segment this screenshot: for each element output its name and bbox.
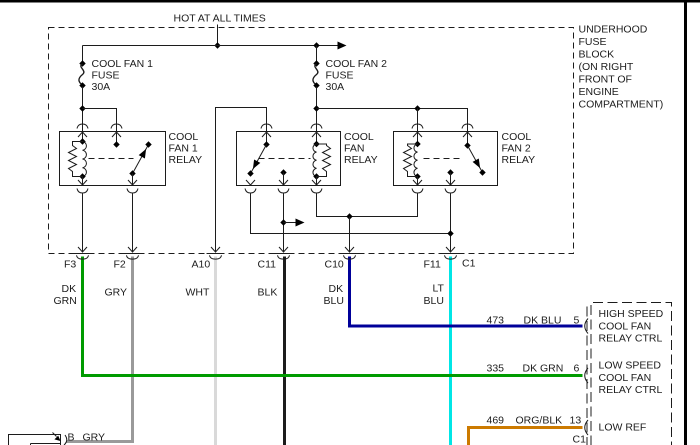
svg-text:A10: A10 (192, 259, 211, 271)
svg-text:RELAY: RELAY (502, 154, 536, 166)
PCM dashed box (591, 303, 672, 445)
svg-text:FAN 2: FAN 2 (502, 143, 531, 155)
relay K2 box: COOL FAN RELAY (237, 132, 341, 186)
svg-text:COMPARTMENT): COMPARTMENT) (579, 99, 664, 111)
label: underhood fuse block (579, 24, 664, 111)
relay3 coil top connector arc (412, 124, 423, 129)
relay2 coil bottom connector arc (311, 189, 322, 194)
svg-text:DK GRN: DK GRN (523, 363, 564, 375)
relay3 switch stub (467, 132, 469, 146)
svg-text:DK BLU: DK BLU (524, 315, 562, 327)
PCM pin5 terminal arc (585, 319, 588, 334)
svg-text:C1: C1 (462, 258, 476, 270)
wire GRY F2 to fan motor (67, 257, 133, 442)
relay3 resistor (parallel with coil) (404, 144, 418, 177)
pin F3 connector cup (74, 253, 92, 255)
svg-text:FUSE: FUSE (92, 70, 120, 82)
relay2 top pin A stub to contact (266, 132, 268, 145)
pin F3 exit chevron (78, 247, 87, 252)
svg-text:COOL FAN: COOL FAN (599, 372, 652, 384)
wire: top power bus (83, 45, 338, 47)
svg-text:GRY: GRY (83, 432, 106, 444)
svg-text:F11: F11 (424, 259, 441, 271)
wire C10 drop (349, 217, 351, 253)
svg-text:COOL: COOL (169, 131, 199, 143)
relay1 pin2 stub with contact dot (116, 132, 118, 145)
relay2 switch arm (251, 145, 267, 174)
svg-text:LOW SPEED: LOW SPEED (599, 360, 662, 372)
relay3 coil bottom chevron (413, 180, 422, 185)
wire DK BLU C10 to PCM pin5 (350, 257, 583, 327)
wire WHT A10 (214, 257, 217, 445)
wire relay3 coil pin up (417, 109, 419, 132)
svg-text:GRY: GRY (105, 287, 128, 299)
svg-text:F2: F2 (114, 259, 126, 271)
fuse F1 COOL FAN 1 FUSE 30A (79, 46, 153, 132)
arrow continuation of bus (338, 42, 347, 50)
relay1 pin 30 bottom connector arc (127, 189, 138, 194)
svg-text:BLOCK: BLOCK (579, 49, 615, 61)
wire LT BLU F11 (449, 257, 452, 445)
fan motor connector arc (64, 435, 67, 445)
relay1 pin 85 bottom chevron (78, 180, 87, 185)
wire relay2 pin30 down and over to F11 (251, 194, 451, 234)
svg-text:(ON RIGHT: (ON RIGHT (579, 61, 634, 73)
relay2 coil bottom chevron (312, 180, 321, 185)
wire relay1 pin85 down to F3 (82, 194, 84, 253)
junction on C11 wire with continuation arrow (280, 219, 286, 225)
pin C10 connector cup (341, 253, 359, 255)
wire ORG/BLK to PCM pin13 (469, 428, 583, 445)
svg-text:COOL FAN: COOL FAN (599, 320, 652, 332)
relay2 bottom mid pin connector arc (278, 189, 289, 194)
svg-text:WHT: WHT (186, 287, 210, 299)
right border frame (684, 0, 687, 445)
relay3 switch arm (468, 146, 483, 173)
relay1 switch arm (133, 145, 149, 174)
junction fuse2 branch / relay3 coil (414, 105, 420, 111)
relay2 bottom mid pin chevron (279, 180, 288, 185)
svg-text:C1: C1 (573, 434, 587, 445)
wire relay1 pin30 down to F2 (132, 194, 134, 253)
relay2 resistor (parallel with coil) (317, 144, 331, 177)
svg-text:COOL FAN 2: COOL FAN 2 (326, 58, 388, 70)
wire fuse1 branch to relay1 pin2 (83, 109, 117, 132)
pin A10 connector cup (207, 253, 225, 255)
relay2 top pin A chevron (262, 132, 271, 137)
relay1 pin 86 chevron (78, 132, 87, 137)
svg-text:LT: LT (433, 283, 445, 295)
relay2 coil top connector arc (311, 124, 322, 129)
svg-text:UNDERHOOD: UNDERHOOD (579, 24, 648, 36)
fan motor connector arrow (53, 433, 57, 437)
relay1 pin2 top connector arc (111, 124, 122, 129)
wire relay3 mid pin down to F11 (450, 194, 452, 253)
svg-text:335: 335 (487, 363, 505, 375)
relay3 switch top chevron (463, 132, 472, 137)
pin F11 exit chevron (446, 247, 455, 252)
pin C11 connector cup (275, 253, 293, 255)
relay1 pin 30 bottom chevron (128, 180, 137, 185)
relay3 bottom mid pin connector arc (445, 189, 456, 194)
svg-text:469: 469 (487, 415, 505, 427)
wire relay2 coil pin over to relay3 coil pin (317, 194, 418, 217)
svg-text:COOL: COOL (502, 131, 532, 143)
svg-text:FUSE: FUSE (579, 36, 607, 48)
svg-text:473: 473 (487, 315, 505, 327)
pin A10 exit chevron (211, 247, 220, 252)
svg-text:DK: DK (62, 283, 77, 295)
wire DK GRN F3 to PCM pin6 (83, 257, 583, 376)
pin F11 connector cup (442, 253, 460, 255)
junction C10 tee (346, 213, 352, 219)
svg-text:ORG/BLK: ORG/BLK (516, 415, 563, 427)
wire A10 riser to relay2 pin (216, 108, 267, 253)
svg-text:COOL: COOL (344, 131, 374, 143)
relay2 bottom pin 30 connector arc (245, 189, 256, 194)
PCM pin6 terminal arc (585, 368, 588, 383)
relay3 coil-switch dashed link (424, 158, 460, 160)
relay1 pin2 chevron (112, 132, 121, 137)
svg-text:BLK: BLK (258, 287, 278, 299)
svg-text:RELAY CTRL: RELAY CTRL (599, 333, 663, 345)
wire relay2 mid pin down to C11 (283, 194, 285, 253)
relay1 pin 86 top connector arc (77, 124, 88, 129)
pin F2 connector cup (124, 253, 142, 255)
relay2 coil top chevron (312, 132, 321, 137)
wire from HOT label down to bus (217, 25, 219, 46)
relay3 coil top chevron (413, 132, 422, 137)
relay K3 box: COOL FAN 2 RELAY (394, 132, 498, 186)
svg-text:RELAY: RELAY (169, 154, 203, 166)
fan motor box bottom left (9, 435, 61, 445)
pin C10 exit chevron (345, 247, 354, 252)
svg-text:13: 13 (570, 415, 582, 427)
svg-text:RELAY CTRL: RELAY CTRL (599, 384, 663, 396)
relay1 pin 30 stub (132, 174, 134, 186)
svg-text:COOL FAN 1: COOL FAN 1 (92, 58, 154, 70)
svg-text:ENGINE: ENGINE (579, 86, 619, 98)
relay3 switch top connector arc (462, 124, 473, 129)
wire fuse2 branch to relay3 (317, 109, 468, 132)
pin C11 exit chevron (279, 247, 288, 252)
svg-text:FAN: FAN (344, 143, 364, 155)
pin F2 exit chevron (128, 247, 137, 252)
svg-text:C10: C10 (325, 259, 344, 271)
svg-text:GRN: GRN (54, 295, 77, 307)
svg-text:C11: C11 (258, 259, 277, 271)
PCM connector face dashed line (586, 307, 588, 445)
relay3 bottom mid pin contact dot and stub (447, 169, 453, 175)
svg-text:FAN 1: FAN 1 (169, 143, 198, 155)
svg-text:BLU: BLU (424, 295, 444, 307)
relay1 coil-switch dashed link (89, 158, 134, 160)
relay3 coil (417, 132, 419, 145)
svg-text:HOT AT ALL TIMES: HOT AT ALL TIMES (174, 13, 266, 25)
relay3 coil bottom connector arc (412, 189, 423, 194)
svg-text:FRONT OF: FRONT OF (579, 74, 632, 86)
svg-text:RELAY: RELAY (344, 154, 378, 166)
relay1 resistor R (parallel with coil) (69, 142, 83, 177)
svg-text:30A: 30A (326, 81, 345, 93)
junction of bus and fuse2 (313, 42, 319, 48)
svg-text:DK: DK (329, 283, 344, 295)
svg-text:B: B (68, 432, 75, 444)
junction F11 tee (447, 230, 453, 236)
junction at bus below HOT label (214, 42, 220, 48)
svg-text:5: 5 (574, 315, 580, 327)
svg-text:LOW REF: LOW REF (599, 422, 647, 434)
svg-text:6: 6 (574, 363, 580, 375)
relay2 bottom mid pin contact dot and stub (280, 169, 286, 175)
relay2 bottom pin 30 chevron (246, 180, 255, 185)
svg-text:HIGH SPEED: HIGH SPEED (599, 308, 664, 320)
svg-text:BLU: BLU (324, 295, 344, 307)
relay K1 box: COOL FAN 1 RELAY (60, 132, 166, 186)
dashed box: underhood fuse block (49, 28, 574, 254)
relay2 top pin A connector arc (261, 124, 272, 129)
relay1 coil (82, 132, 84, 142)
svg-text:FUSE: FUSE (326, 70, 354, 82)
fuse F2 COOL FAN 2 FUSE 30A (313, 46, 387, 132)
svg-text:30A: 30A (92, 81, 111, 93)
svg-text:F3: F3 (64, 259, 76, 271)
relay3 bottom mid pin chevron (446, 180, 455, 185)
wire BLK C11 (283, 257, 286, 445)
relay2 coil-switch dashed link (259, 158, 311, 160)
relay1 pin 85 bottom connector arc (77, 189, 88, 194)
PCM pin13 terminal arc (585, 420, 588, 435)
top border frame (0, 0, 700, 3)
relay2 coil (316, 132, 318, 145)
